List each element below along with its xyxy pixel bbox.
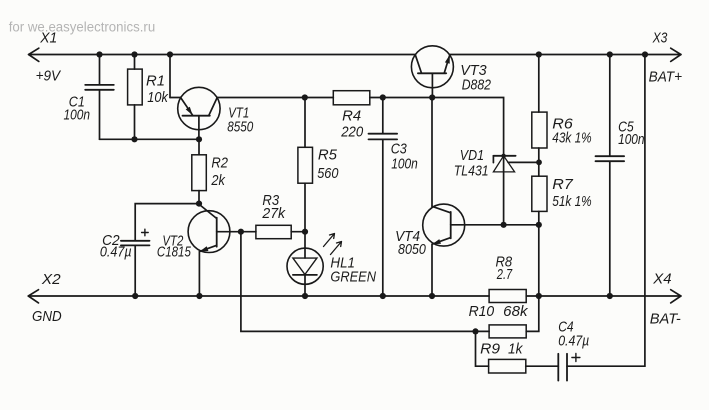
resistor R8 value labels — [496, 253, 513, 283]
node X3 terminal arrow — [671, 48, 681, 61]
svg-text:100n: 100n — [618, 131, 644, 148]
svg-text:2.7: 2.7 — [496, 266, 513, 283]
svg-text:X1: X1 — [39, 30, 57, 47]
resistor R2 — [192, 139, 207, 203]
transistor VT1 — [170, 55, 305, 140]
junction dots VT1 base row — [131, 136, 202, 142]
resistor R4 — [305, 91, 383, 105]
junction dot TL431 apex — [501, 154, 505, 158]
svg-text:0.47µ: 0.47µ — [100, 243, 132, 260]
junction dots collector row y97 — [302, 94, 436, 100]
svg-text:D882: D882 — [462, 77, 492, 94]
resistor R10 value labels — [469, 303, 529, 320]
wire: VT3 base node to VD1 cathode corner — [383, 98, 504, 156]
resistor R9 — [476, 331, 559, 373]
svg-text:for we.easyelectronics.ru: for we.easyelectronics.ru — [9, 20, 156, 35]
svg-text:+9V: +9V — [36, 67, 62, 84]
svg-text:R7: R7 — [552, 176, 573, 193]
resistor R3 value labels — [261, 192, 286, 222]
svg-text:0.47µ: 0.47µ — [558, 333, 589, 350]
shunt regulator VD1 labels — [454, 147, 489, 179]
svg-text:560: 560 — [317, 165, 339, 182]
wire: bottom GND rail left segment — [28, 295, 489, 297]
junction dot VD1 REF node — [536, 159, 542, 165]
capacitor C3 — [369, 98, 398, 297]
LED HL1 labels — [330, 255, 376, 286]
transistor VT4 — [423, 204, 539, 296]
svg-text:51k 1%: 51k 1% — [552, 193, 591, 210]
svg-text:R5: R5 — [318, 147, 338, 164]
transistor VT3 labels — [460, 62, 491, 93]
wire: R7 bottom to BAT- rail vertical — [538, 225, 540, 296]
svg-text:BAT+: BAT+ — [649, 69, 683, 86]
svg-text:TL431: TL431 — [454, 163, 489, 180]
svg-text:X3: X3 — [652, 30, 668, 47]
resistor R1 value labels — [146, 72, 169, 106]
junction dots bottom rail — [132, 293, 613, 299]
svg-text:X4: X4 — [652, 271, 671, 288]
svg-text:68k: 68k — [503, 303, 529, 320]
resistor R6 value labels — [552, 116, 591, 147]
resistor R7 value labels — [552, 176, 591, 210]
capacitor C5 — [596, 55, 625, 297]
svg-text:R2: R2 — [211, 155, 228, 172]
svg-text:GREEN: GREEN — [330, 268, 376, 285]
transistor VT4 labels — [395, 228, 426, 258]
svg-text:R4: R4 — [342, 108, 361, 125]
svg-text:BAT-: BAT- — [650, 310, 681, 327]
wire: top BAT+ rail right segment — [450, 54, 681, 56]
transistor VT1 labels — [227, 104, 254, 135]
resistor R8 (in BAT- rail) — [489, 290, 526, 303]
resistor R5 — [298, 98, 313, 232]
resistor R9 value labels — [480, 340, 524, 357]
svg-text:8050: 8050 — [398, 241, 426, 258]
svg-text:220: 220 — [340, 123, 363, 140]
wire: VT3 base to VT4 collector vertical — [431, 98, 433, 207]
capacitor C1 value labels — [64, 94, 91, 124]
capacitor C2 value labels — [100, 232, 132, 260]
svg-text:GND: GND — [32, 308, 62, 325]
wire: VT2 base feedback drop to R10/R9 row — [241, 232, 489, 332]
svg-text:8550: 8550 — [227, 119, 254, 136]
svg-text:R9: R9 — [480, 340, 501, 357]
svg-text:2k: 2k — [211, 172, 227, 189]
junction dot R2/C2/VT2 node — [196, 201, 202, 207]
transistor VT2 — [188, 204, 241, 296]
transistor VT3 — [411, 46, 453, 98]
node X4 terminal arrow — [671, 290, 681, 303]
shunt regulator VD1 TL431 — [493, 155, 538, 225]
capacitor C5 value labels — [618, 118, 644, 148]
svg-text:100n: 100n — [64, 107, 91, 124]
junction dots VT2 base row — [238, 229, 308, 235]
resistor R1 — [128, 55, 143, 140]
svg-text:100n: 100n — [391, 156, 418, 173]
capacitor C1 — [85, 55, 114, 140]
resistor R10 — [489, 296, 539, 338]
svg-text:10k: 10k — [147, 89, 169, 106]
junction dot R10/R9 node — [472, 328, 478, 334]
svg-text:1k: 1k — [508, 340, 524, 357]
svg-text:C1815: C1815 — [157, 244, 192, 261]
capacitor C3 value labels — [391, 141, 418, 173]
resistor R2 value labels — [211, 155, 229, 189]
svg-text:43k 1%: 43k 1% — [552, 129, 591, 146]
node X1 terminal arrow — [29, 48, 39, 61]
capacitor C2 (polarized) — [121, 229, 150, 296]
resistor R5 value labels — [317, 147, 339, 182]
capacitor C4 value labels — [558, 318, 589, 349]
junction dots top rail — [96, 51, 648, 57]
wire: VT1 base node horizontal (C1/R1/R2 junction row) — [100, 138, 200, 140]
node X2 terminal arrow — [28, 290, 38, 303]
resistor R3 — [241, 225, 305, 238]
svg-text:27k: 27k — [261, 205, 286, 222]
wire: top +9V rail left segment — [29, 54, 416, 56]
resistor R6 — [532, 55, 547, 177]
svg-text:R1: R1 — [146, 72, 165, 89]
wire: R2/C2/VT2-collector node — [135, 204, 199, 240]
svg-text:R10: R10 — [469, 303, 495, 320]
LED HL1 — [287, 232, 342, 296]
svg-text:X2: X2 — [41, 271, 61, 288]
wire: C4 to BAT+ rail vertical — [644, 55, 646, 367]
capacitor C4 (polarized) — [558, 354, 645, 381]
resistor R7 — [532, 176, 547, 225]
wire: bottom BAT- rail right segment — [526, 295, 681, 297]
junction dots VT4 base row — [501, 222, 542, 228]
resistor R4 value labels — [340, 108, 363, 141]
transistor VT2 labels — [157, 232, 192, 260]
